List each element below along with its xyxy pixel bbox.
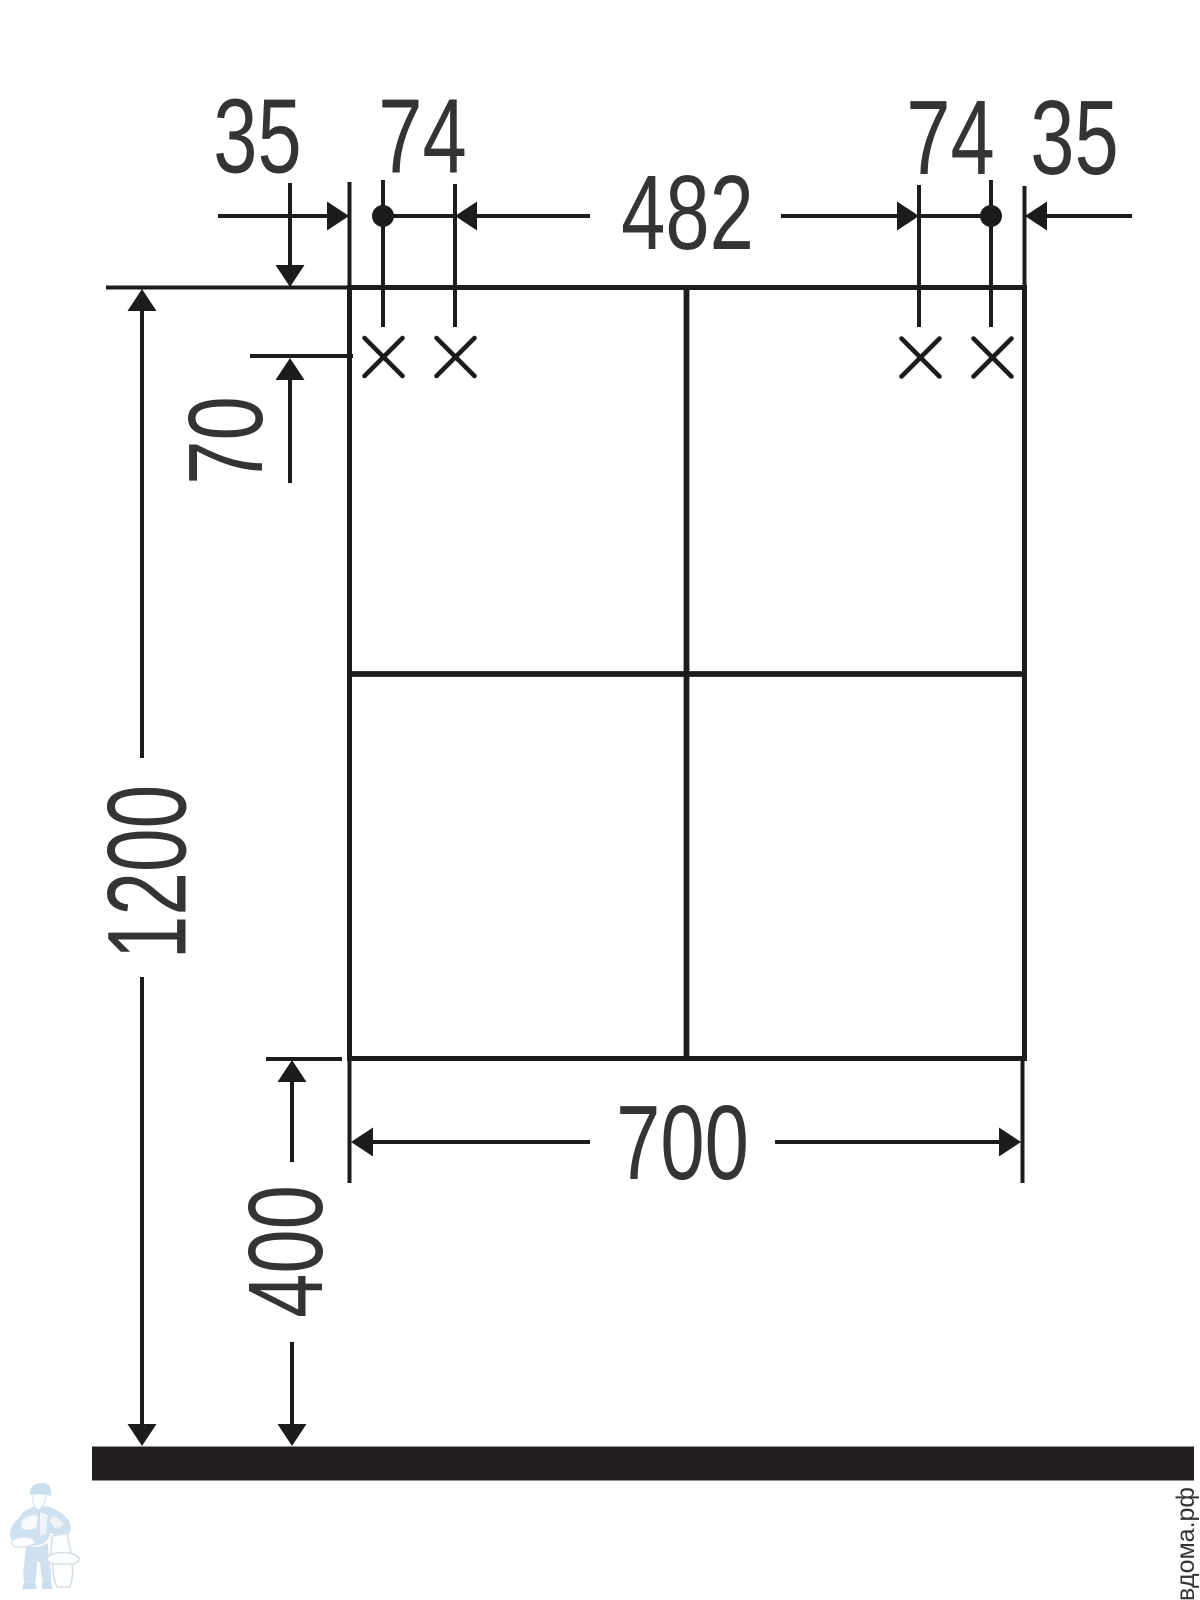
top dimension line left tail: [218, 214, 328, 218]
plumber hand white: [12, 1537, 35, 1547]
extension line cabinet top to left: [106, 286, 349, 290]
70 dim upper arrow shaft: [288, 183, 292, 266]
dimension origin dot left: [372, 205, 394, 227]
screw axis line left-outer x=383: [381, 180, 385, 327]
plumber jacket/torso: [17, 1506, 70, 1548]
70 dim lower arrow shaft: [288, 380, 292, 483]
hinge cross mark left-outer: [365, 338, 403, 376]
plumber shirt front: [40, 1512, 48, 1536]
svg-text:700: 700: [616, 1083, 749, 1202]
400 dim lower shaft: [290, 1342, 294, 1424]
svg-text:вдома.рф: вдома.рф: [1172, 1487, 1200, 1600]
700 dim line right segment: [775, 1140, 999, 1144]
400 dim upper shaft: [290, 1082, 294, 1162]
hinge cross mark left-inner: [437, 338, 475, 376]
dimension origin dot right: [980, 205, 1002, 227]
plumber jacket white highlight: [21, 1516, 38, 1530]
plumber bow tie: [39, 1512, 48, 1521]
arrowhead left at x=455: [455, 202, 477, 231]
svg-text:1200: 1200: [85, 785, 210, 959]
hinge cross mark right-inner: [902, 339, 940, 377]
top dimension right tail: [1047, 214, 1132, 218]
watermark plumber figure: [10, 1483, 79, 1589]
700 dim arrowhead right: [999, 1128, 1021, 1157]
arrowhead right at x=349: [327, 202, 349, 231]
70 extension line at hinge height: [250, 354, 353, 358]
1200 dim lower shaft: [140, 977, 144, 1424]
plumber right arm resting on tank: [56, 1527, 69, 1536]
70 dim arrowhead up at hinge line: [276, 358, 305, 380]
700 dim arrowhead left: [351, 1128, 373, 1157]
plumber cap: [30, 1483, 51, 1496]
arrowhead left at x=1025: [1025, 202, 1047, 231]
400 dim arrowhead up at cabinet bottom: [278, 1060, 307, 1082]
arrowhead right at x=919: [897, 202, 919, 231]
top dimension segment 477-590: [477, 214, 590, 218]
extension line cabinet bottom to left: [266, 1057, 342, 1061]
svg-text:74: 74: [378, 76, 466, 195]
cabinet outline: [350, 288, 1025, 1059]
top dimension segment 919-991: [919, 214, 991, 218]
extension line below right cabinet edge: [1021, 1059, 1025, 1183]
svg-text:70: 70: [166, 396, 285, 484]
cabinet vertical divider: [684, 287, 690, 1058]
700 dim line left segment: [373, 1140, 590, 1144]
plumber boots: [22, 1583, 53, 1589]
svg-text:482: 482: [621, 153, 754, 272]
1200 dim arrowhead down at floor: [128, 1424, 157, 1446]
svg-text:35: 35: [1030, 78, 1118, 197]
extension line above right cabinet edge: [1023, 186, 1027, 287]
cabinet horizontal divider: [349, 671, 1025, 677]
top dimension segment 383-455: [383, 214, 455, 218]
toilet bowl pedestal: [53, 1564, 73, 1587]
top dimension segment 781-898: [781, 214, 898, 218]
plumber left arm akimbo: [10, 1516, 26, 1542]
screw axis line right-inner x=919: [917, 185, 921, 327]
plumber face: [33, 1494, 46, 1511]
screw axis line right-outer x=991: [989, 180, 993, 327]
extension line above left cabinet edge: [348, 182, 352, 287]
svg-text:400: 400: [226, 1185, 345, 1318]
plumber pants and legs: [23, 1543, 51, 1584]
toilet seat: [47, 1553, 79, 1566]
svg-text:74: 74: [906, 78, 994, 197]
svg-text:35: 35: [213, 76, 301, 195]
1200 dim upper shaft: [140, 311, 144, 758]
toilet tank: [51, 1533, 71, 1555]
1200 dim arrowhead up at cabinet top: [128, 289, 157, 311]
400 dim arrowhead down at floor: [278, 1424, 307, 1446]
floor bar: [92, 1447, 1194, 1481]
hinge cross mark right-outer: [974, 339, 1012, 377]
screw axis line left-inner x=455: [453, 184, 457, 327]
extension line below left cabinet edge: [348, 1059, 352, 1183]
70 dim arrowhead down at cabinet top: [276, 265, 305, 287]
